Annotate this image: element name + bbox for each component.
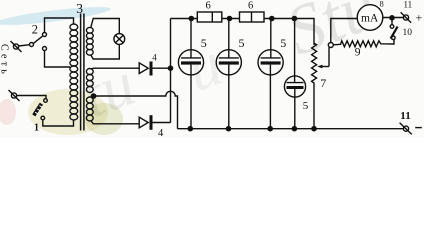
svg-text:mA: mA xyxy=(361,13,379,25)
wire lamp to S1 bottom xyxy=(91,44,120,59)
capacitor 5 (third) xyxy=(258,19,283,129)
wiper terminal circle xyxy=(328,43,333,48)
svg-text:4: 4 xyxy=(158,128,164,138)
bottom minus bus xyxy=(178,128,404,130)
mains terminal bottom (plug pin) xyxy=(11,93,16,98)
wire S2 bottom lead to diode anode xyxy=(91,121,140,124)
switch 1 lower contact xyxy=(41,116,45,120)
watermark gray letters xyxy=(73,0,388,131)
svg-text:5: 5 xyxy=(239,36,245,50)
junction dot cap4 branch xyxy=(292,16,296,20)
wire switch2 lower contact to primary tap xyxy=(45,51,71,68)
junction dot pot bottom xyxy=(312,127,316,131)
svg-text:6: 6 xyxy=(248,1,253,12)
watermark blue streak xyxy=(0,3,111,28)
junction dot cap2 bottom xyxy=(226,127,230,131)
resistor 9 (meter shunt zigzag) xyxy=(333,40,394,47)
capacitor 5 (first) xyxy=(178,19,203,129)
wire terminal to switch 1 xyxy=(17,96,46,99)
S2 centre tap junction dot xyxy=(92,94,96,98)
resistor 6 (first) xyxy=(197,12,222,22)
fuse-switch 1 lever (striped bar) xyxy=(34,104,42,116)
svg-text:9: 9 xyxy=(355,47,361,59)
secondary winding S2 upper half xyxy=(86,69,93,93)
junction dot diode 4a xyxy=(168,66,172,70)
wire switch1 to primary bottom xyxy=(43,120,74,126)
plus rail vertical xyxy=(170,19,172,123)
switch 2 lever xyxy=(33,36,42,43)
potentiometer 7 body xyxy=(312,43,317,129)
wire S2 top lead to diode anode xyxy=(91,68,139,69)
resistor 6 (second) xyxy=(240,12,265,22)
svg-text:1: 1 xyxy=(34,123,39,134)
switch 10 lever xyxy=(391,27,398,39)
svg-text:11: 11 xyxy=(400,110,410,122)
output terminal 11 minus xyxy=(403,126,408,131)
wire switch2 upper contact to primary top xyxy=(45,18,74,33)
switch 2 upper fixed contact xyxy=(43,33,47,37)
wire meter to plus terminal xyxy=(382,17,403,19)
mains terminal top (plug pin) xyxy=(13,44,18,49)
wire S1 top to lamp xyxy=(91,19,120,35)
junction dot cap1 bottom xyxy=(188,127,192,131)
junction dot switch 10 xyxy=(390,16,394,20)
diode 4a xyxy=(139,63,148,74)
wire diode 4b cathode to plus rail vertical xyxy=(153,122,171,124)
wire wiper to meter xyxy=(331,19,358,43)
wire between resistors xyxy=(222,18,240,20)
svg-text:8: 8 xyxy=(380,0,384,9)
svg-text:7: 7 xyxy=(320,76,326,90)
junction dot cap3 top xyxy=(270,16,274,20)
wire terminal to switch 2 xyxy=(19,45,30,46)
transformer core xyxy=(80,14,82,131)
milliammeter 8 xyxy=(357,5,383,31)
junction dot cap1 top xyxy=(189,16,193,20)
svg-text:6: 6 xyxy=(206,1,211,12)
switch 2 lower fixed contact xyxy=(43,47,47,51)
wire diode 4a cathode to plus rail xyxy=(153,67,171,69)
output terminal 11 plus xyxy=(403,15,408,20)
svg-text:10: 10 xyxy=(403,28,413,38)
svg-text:Сеть: Сеть xyxy=(0,44,10,77)
capacitor 5 (fourth) xyxy=(284,19,305,129)
svg-text:+: + xyxy=(416,11,423,25)
svg-text:3: 3 xyxy=(76,1,83,16)
secondary winding S1 (lamp) xyxy=(86,27,93,55)
secondary winding S2 lower half xyxy=(86,97,93,121)
junction dot cap4 bottom xyxy=(292,127,296,131)
transformer primary winding xyxy=(70,24,78,120)
switch 10 lower contact xyxy=(392,36,396,40)
junction dot cap3 bottom xyxy=(268,127,272,131)
top plus bus xyxy=(171,18,198,20)
potentiometer 7 wiper arrow xyxy=(321,66,329,68)
svg-text:5: 5 xyxy=(303,100,309,112)
minus sign xyxy=(415,127,422,129)
switch 10 upper contact xyxy=(391,20,393,25)
switch 2 moving contact xyxy=(30,43,34,47)
diode 4b xyxy=(139,117,148,128)
svg-text:4: 4 xyxy=(152,53,157,63)
switch 1 upper contact xyxy=(44,99,48,103)
top bus right section xyxy=(264,19,314,46)
pilot lamp xyxy=(114,34,125,45)
svg-text:2: 2 xyxy=(32,23,38,37)
svg-text:11: 11 xyxy=(404,0,413,10)
svg-text:5: 5 xyxy=(201,36,207,50)
svg-text:5: 5 xyxy=(280,36,286,50)
centre tap wire with hop over plus rail xyxy=(91,91,178,128)
junction dot cap2 top xyxy=(227,16,231,20)
watermark yellow flower xyxy=(28,89,108,135)
capacitor 5 (second) xyxy=(216,19,241,129)
